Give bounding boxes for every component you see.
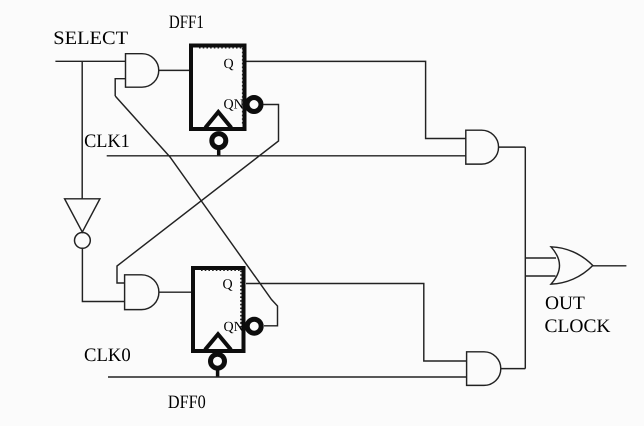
inverter bubble <box>75 233 91 249</box>
svg-text:DFF1: DFF1 <box>169 12 204 33</box>
wire A1 output to DFF1 D input <box>159 69 190 71</box>
svg-text:DFF0: DFF0 <box>168 392 206 413</box>
wire Q0 net to A3 upper input <box>246 284 467 362</box>
wire clock stem DFF1 <box>217 150 221 156</box>
wire A0 output to DFF0 D input <box>159 291 192 293</box>
svg-text:SELECT: SELECT <box>53 28 128 49</box>
wire CLK0 line <box>108 376 467 378</box>
D flip-flop DFF0 body <box>193 268 244 351</box>
D flip-flop DFF1 body <box>191 46 245 130</box>
wire cross net from A1 hook to QN0 bubble <box>115 96 277 326</box>
wire Q1 net to A2 upper input <box>247 61 466 138</box>
wire A3 output <box>501 368 526 370</box>
AND gate A2 <box>466 130 499 164</box>
svg-text:Q: Q <box>223 278 233 293</box>
clock bubble DFF0 <box>211 354 225 368</box>
wire CLK1 line <box>107 155 466 157</box>
DFF0 selection dots top <box>201 269 240 271</box>
svg-text:CLOCK: CLOCK <box>545 316 611 337</box>
wire SELECT horizontal <box>55 60 125 62</box>
wire inverter output to A0 lower input <box>82 248 124 301</box>
wire A1 lower input hook <box>115 79 125 96</box>
clock bubble DFF1 <box>212 134 226 148</box>
OR gate U2 <box>551 247 593 284</box>
output bubble QN0 <box>247 319 261 333</box>
clock triangle DFF1 <box>205 112 231 128</box>
svg-text:QN: QN <box>224 98 244 113</box>
svg-text:CLK1: CLK1 <box>84 131 130 152</box>
wire OR lower input stub <box>525 275 555 277</box>
wire QN1 cross net to A0 upper input <box>117 105 279 284</box>
clock triangle DFF0 <box>205 334 231 350</box>
svg-text:OUT: OUT <box>545 293 585 314</box>
output bubble QN1 <box>247 98 261 112</box>
wire A2 output <box>499 146 526 148</box>
wire clock stem DFF0 <box>216 371 220 378</box>
wire right vertical bus <box>524 147 526 368</box>
AND gate A0 <box>125 275 159 310</box>
inverter U1 <box>65 199 100 232</box>
svg-text:Q: Q <box>224 57 234 72</box>
wire OR output <box>593 265 627 267</box>
DFF0 selection dots right <box>240 271 242 331</box>
DFF1 selection dots top <box>199 47 242 49</box>
AND gate A1 <box>126 54 159 87</box>
wire SELECT drop to inverter <box>81 61 83 199</box>
AND gate A3 <box>467 352 501 386</box>
svg-text:QN: QN <box>224 320 244 335</box>
svg-text:CLK0: CLK0 <box>84 345 131 366</box>
wire OR upper input stub <box>525 257 556 259</box>
DFF1 selection dots right <box>242 48 244 124</box>
